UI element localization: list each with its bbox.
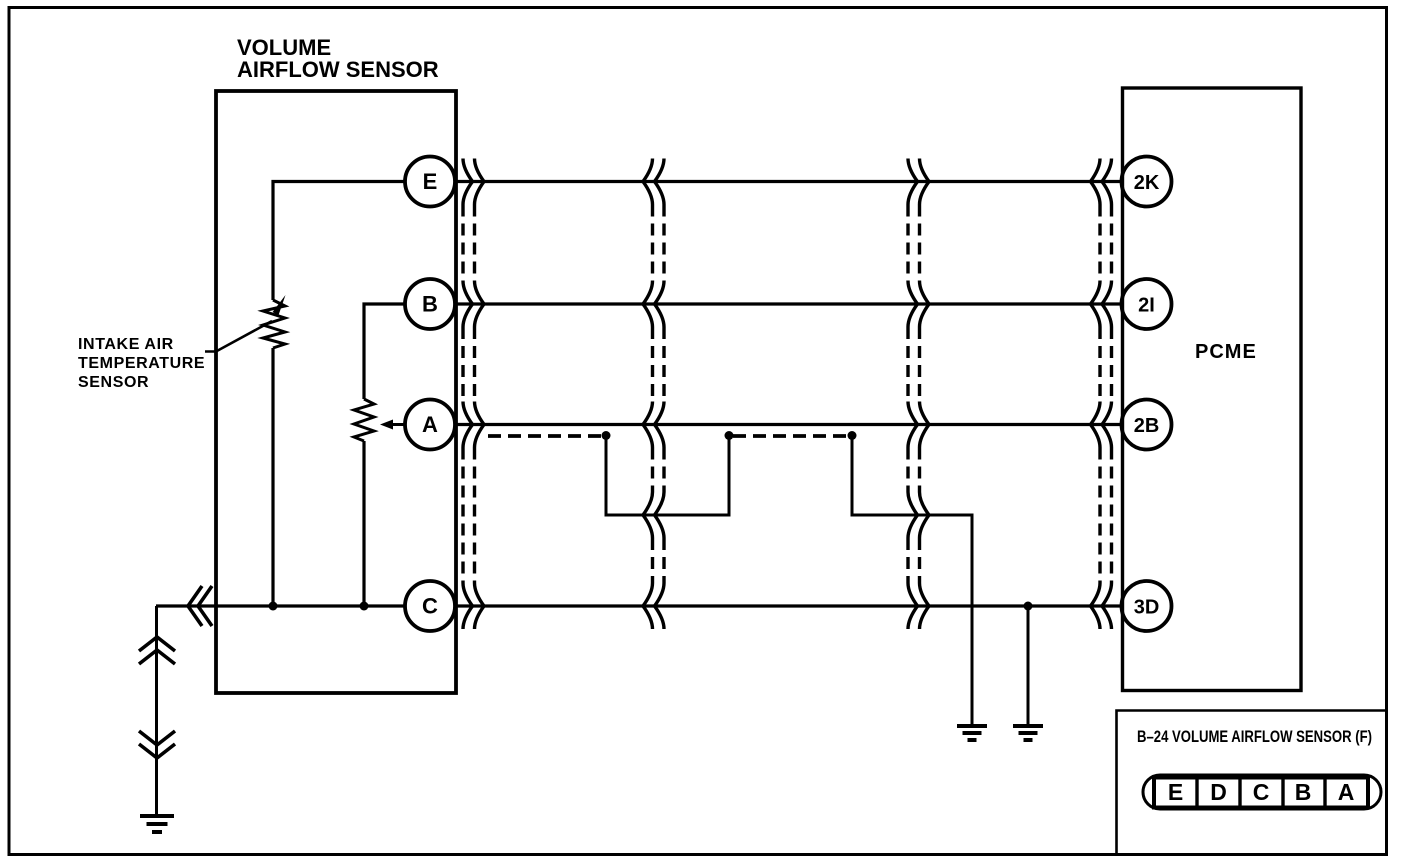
shield line 3 — [643, 159, 653, 630]
wire C to left ground — [155, 606, 158, 815]
svg-text:E: E — [1168, 779, 1183, 805]
svg-text:2I: 2I — [1138, 295, 1155, 317]
shield line 2 — [475, 159, 485, 630]
svg-text:D: D — [1210, 779, 1227, 805]
node drain 3 — [848, 431, 857, 440]
wiper arrow to A — [390, 423, 406, 426]
pin B — [405, 279, 455, 329]
ground C — [1013, 726, 1043, 740]
svg-text:2B: 2B — [1134, 415, 1160, 437]
svg-text:PCME: PCME — [1195, 341, 1257, 363]
svg-text:2K: 2K — [1134, 172, 1160, 194]
wire E internal — [273, 182, 430, 301]
pin 2I — [1122, 279, 1172, 329]
shield line 6 — [920, 159, 930, 630]
pin 2K — [1122, 157, 1172, 207]
shield line 1 — [463, 159, 473, 630]
break chevrons on C wire — [188, 586, 202, 626]
wire B internal — [364, 304, 430, 399]
wire E to 2K — [455, 180, 1123, 183]
resistor R1 intake air temp sensor — [263, 300, 285, 348]
svg-text:A: A — [422, 412, 438, 437]
ground left — [140, 816, 174, 832]
node drain 1 — [602, 431, 611, 440]
ground drain — [957, 726, 987, 740]
shield line 7 — [1091, 159, 1101, 630]
pin A — [405, 400, 455, 450]
svg-text:C: C — [1253, 779, 1270, 805]
shield line 8 — [1102, 159, 1112, 630]
volume airflow sensor box — [216, 91, 456, 693]
node junction R1-C — [269, 602, 278, 611]
pin E — [405, 157, 455, 207]
node junction C-ground — [1024, 602, 1033, 611]
drain jumper 2 to ground — [852, 436, 972, 726]
pin 3D — [1122, 581, 1172, 631]
PCME box — [1123, 88, 1302, 691]
wire R2 to C rail — [362, 441, 365, 606]
wire C to 3D — [156, 604, 1123, 607]
svg-text:A: A — [1338, 779, 1355, 805]
svg-text:3D: 3D — [1134, 597, 1160, 619]
svg-text:TEMPERATURE: TEMPERATURE — [78, 355, 205, 372]
connector B-24 shell — [1143, 775, 1381, 809]
break chevrons lower on ground wire — [139, 731, 175, 745]
wire A to 2B — [455, 423, 1123, 426]
svg-text:AIRFLOW SENSOR: AIRFLOW SENSOR — [237, 57, 439, 82]
connector cavity letters E D C B A — [1168, 779, 1354, 805]
pin C — [405, 581, 455, 631]
node drain 2 — [725, 431, 734, 440]
connector detail box — [1117, 711, 1387, 855]
svg-text:INTAKE AIR: INTAKE AIR — [78, 336, 174, 353]
svg-text:B–24 VOLUME AIRFLOW SENSOR (F): B–24 VOLUME AIRFLOW SENSOR (F) — [1137, 727, 1372, 746]
shield line 5 — [908, 159, 918, 630]
svg-text:E: E — [423, 169, 438, 194]
drain jumper 1 — [606, 436, 729, 515]
resistor R2 airflow potentiometer — [354, 399, 374, 441]
label VOLUME AIRFLOW SENSOR — [237, 35, 439, 82]
arrow through R1 — [205, 321, 272, 352]
svg-text:B: B — [422, 292, 438, 317]
label INTAKE AIR TEMPERATURE SENSOR — [78, 336, 205, 391]
wire R1 to C rail — [271, 348, 274, 606]
wire C tap to ground — [1027, 606, 1030, 726]
wire B to 2I — [455, 302, 1123, 305]
shield line 4 — [655, 159, 665, 630]
break chevrons upper on ground wire — [139, 637, 175, 651]
shield drain dashed middle — [733, 434, 848, 438]
svg-text:SENSOR: SENSOR — [78, 374, 149, 391]
node junction R2-C — [360, 602, 369, 611]
svg-text:C: C — [422, 594, 438, 619]
shield drain dashed from A — [488, 434, 602, 438]
pin 2B — [1122, 400, 1172, 450]
svg-text:B: B — [1295, 779, 1312, 805]
connector B-24 cells — [1154, 778, 1368, 808]
